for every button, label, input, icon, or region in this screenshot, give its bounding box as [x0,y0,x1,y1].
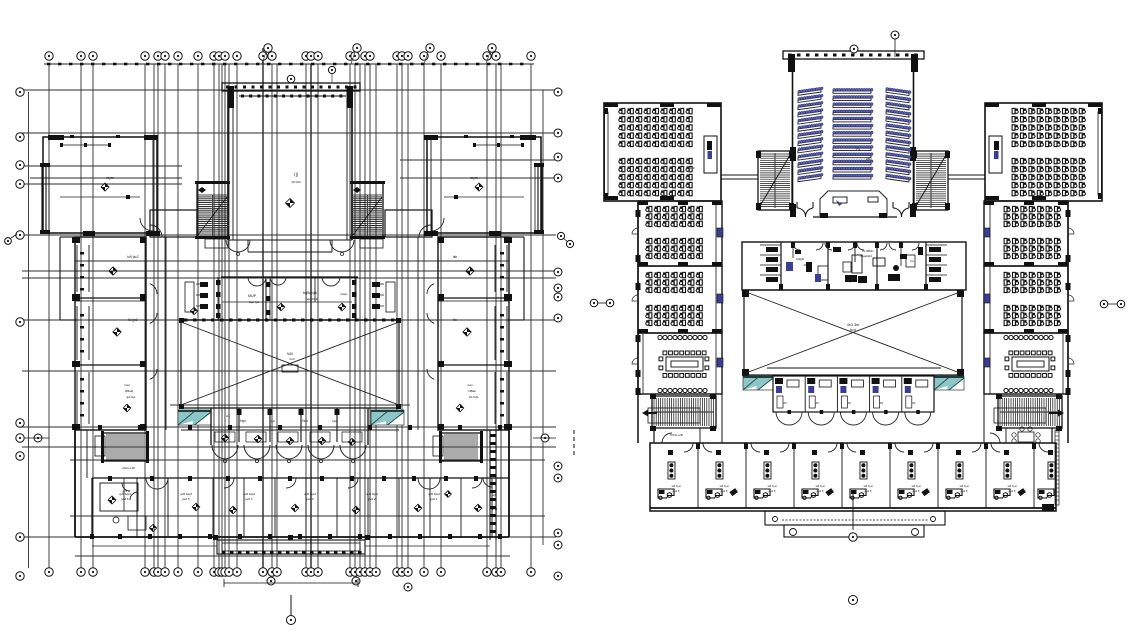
corridor link right [948,174,985,176]
svg-text:w5 hyd: w5 hyd [864,484,873,488]
bottom office furniture [658,450,1055,499]
svg-text:w5 hyd: w5 hyd [960,484,969,488]
upper-left classroom podium [704,136,717,173]
wing classroom 1 walls [984,201,1068,266]
auditorium left seat bank [798,87,823,182]
auditorium grid bubble on wall [850,45,858,53]
svg-text:w5 hyd: w5 hyd [672,484,681,488]
bottom office door arcs [684,443,1048,452]
svg-text:jout 6: jout 6 [672,489,680,493]
svg-text:Hqn: Hqn [240,419,246,423]
auditorium top wall [783,51,924,72]
upper-right classroom seats group B [1012,158,1085,195]
X hall walls [742,290,964,376]
svg-text:Hqn: Hqn [302,419,308,423]
stair tower left of auditorium [758,151,792,210]
svg-text:+010+4,18: +010+4,18 [121,466,135,470]
hall south portal [229,240,352,252]
bottom rooms band outline [75,425,509,539]
upper-left wing door arc [140,218,153,231]
right band window wall hatch [1042,430,1059,511]
svg-text:jwd 6: jwd 6 [120,497,128,501]
cyan vent block left [178,410,211,425]
wing door marks [717,228,723,237]
right band entry walls [990,427,1052,443]
svg-text:jwd 4: jwd 4 [244,497,252,501]
left plan left grid bubbles [16,88,24,580]
upper-right wing door arc [431,218,444,231]
svg-text:MUI: MUI [287,352,293,356]
svg-text:jout 6: jout 6 [816,489,824,493]
svg-text:jout 6: jout 6 [912,489,920,493]
bottom rooms door arcs [146,478,482,489]
auditorium west wall [792,59,794,217]
bottom band window wall right [490,430,496,540]
svg-text:w5 hyd: w5 hyd [816,484,825,488]
left plan section marker pair bottom-left [34,434,42,442]
right wing [984,201,1074,443]
right floor plan [590,31,1125,605]
svg-text:qu5 bqrd: qu5 bqrd [243,492,255,496]
left side bubbles pair [590,299,598,307]
wing stair [994,394,1064,431]
svg-text:bvd: bvd [850,328,856,332]
auditorium right seat bank [886,87,911,182]
bottom-left room cluster [100,478,146,530]
svg-text:100: 100 [1011,166,1016,170]
stair block upper-left [197,183,228,237]
bottom stem bubble 2 [849,596,858,605]
svg-text:jout 6: jout 6 [1008,489,1016,493]
left plan section marker pair bottom-right [541,434,549,442]
svg-text:(jel: (jel [271,419,275,423]
svg-text:tlk: tlk [453,318,457,322]
left plan right dashes [573,430,575,458]
upper-right classroom podium [989,136,1002,173]
middle-right diamond 2 [463,328,471,336]
corridor door arc left [226,240,238,252]
corridor link left [721,174,758,176]
svg-text:w5 hyd: w5 hyd [768,484,777,488]
central hall east wall [351,91,353,240]
canopy stem bubble [328,66,335,73]
wing outer wall [1067,201,1069,443]
auditorium stage [820,191,887,216]
svg-text:b]Buk]: b]Buk] [125,389,134,393]
cyan vent block right [371,410,404,425]
middle-left diamond 2 [113,328,121,336]
auditorium center seat bank [833,88,873,179]
svg-text:hlBak: hlBak [468,389,476,393]
stair block lower-left [103,433,147,461]
wing inner partition wall [989,201,991,394]
upper-left classroom seats group B [619,158,692,195]
svg-text:mym: mym [470,176,478,180]
left plan top grid bubbles [45,44,535,64]
svg-text:I]|: I]| [294,172,297,177]
stair tower right of auditorium [914,151,948,210]
svg-text:4x3 3m: 4x3 3m [847,323,859,327]
stair block lower-right [441,433,481,461]
small office row [773,376,934,425]
bottom band window wall left [86,430,88,478]
room beside left stair [150,210,197,237]
door arc right mid [419,225,431,237]
more toilet fixtures [795,247,923,283]
auditorium stem bubble [891,31,899,39]
svg-text:bdqjD: bdqjD [796,257,805,261]
svg-text:bqw (jel: bqw (jel [249,300,260,304]
upper-right wing room [424,135,544,236]
lower toilet diamonds [221,434,229,442]
svg-text:TOTAL+AB: TOTAL+AB [669,433,682,437]
auditorium wall blocks [790,147,796,161]
stair block upper-right [352,183,383,237]
bottom porch [92,535,490,554]
central hall west wall [227,91,229,240]
room beside right stair [385,210,432,237]
left wing [632,201,723,443]
right side bubbles pair [1100,300,1108,308]
left floor plan [5,44,574,625]
upper-right classroom walls [985,103,1102,201]
bottom stem bubble 1 [852,490,854,530]
X cross hall right diagonal [181,322,399,405]
svg-text:num: num [467,383,473,387]
svg-text:tu5 |ac2: tu5 |ac2 [127,255,139,259]
left plan west diagonal pair [5,234,17,244]
svg-text:bvd: bvd [290,357,295,361]
X hall diagonal 2 [746,292,960,373]
svg-text:bqqehldd: bqqehldd [306,297,319,301]
svg-text:qu5 bqrd: qu5 bqrd [304,492,316,496]
door arc left mid [150,225,162,237]
wing classroom 2 walls [638,266,722,333]
svg-text:bdqlu: bdqlu [341,292,348,296]
auditorium door arc right [893,202,909,217]
svg-text:qu5 bqrd: qu5 bqrd [180,492,192,496]
svg-text:20: 20 [783,401,787,405]
svg-text:20: 20 [803,263,807,267]
left plan horizontal grid lines [22,90,556,556]
svg-text:jqr5 d: jqr5 d [122,489,130,493]
svg-text:jwd 5: jwd 5 [181,497,189,501]
bottom dimension line [224,582,358,584]
lower toilet block [181,408,399,445]
wing classroom 2 walls [984,266,1068,333]
svg-text:tjd hqs: tjd hqs [126,395,136,399]
middle-right diamond 3 [456,404,464,412]
wing conference room [638,333,722,394]
auditorium door arc left [797,202,813,217]
svg-text:bq|Bqh|ek: bq|Bqh|ek [303,291,318,295]
svg-text:a)l: a)l [492,493,496,497]
X cross hall left diagonal [181,322,399,405]
wing west door arcs [1068,228,1074,234]
svg-text:jout 6: jout 6 [768,489,776,493]
corridor door arc right [330,240,342,252]
svg-text:w5 hyd: w5 hyd [720,484,729,488]
svg-text:20: 20 [880,401,884,405]
middle-right diamond 1 [466,267,474,275]
wing classroom 1 seats [646,206,703,226]
wing conference room [984,333,1068,394]
left plan extra vertical line right [542,90,544,545]
svg-text:I¼: I¼ [856,147,860,151]
bottom-right room cluster [483,478,498,511]
svg-text:jout 6: jout 6 [960,489,968,493]
svg-text:20: 20 [912,401,916,405]
X hall mark [282,365,298,372]
svg-text:20: 20 [816,401,820,405]
wing inner wall [983,201,985,443]
left plan right grid bubbles [554,88,562,580]
wing classroom 2 seats [646,272,703,292]
upper-left wing diamond [101,183,109,191]
bottom office band outline [650,443,1056,511]
toilet strip diamonds [190,307,197,314]
svg-text:rrum: rrum [124,383,131,387]
svg-text:100: 100 [689,166,694,170]
svg-text:jwd 3: jwd 3 [305,497,313,501]
svg-text:jout 6: jout 6 [720,489,728,493]
toilet strip side fixtures left [185,282,208,312]
svg-text:jwd 1: jwd 1 [429,497,437,501]
canopy grid bubble [287,75,295,83]
svg-text:´VA0: ´VA0 [865,157,872,161]
toilet strip fixtures [786,255,900,282]
upper-left classroom seats group A [619,108,692,146]
toilet strip side fixtures right [372,282,395,312]
svg-text:tlk |jn0: tlk |jn0 [128,318,137,322]
svg-text:w5 hyd: w5 hyd [1008,484,1017,488]
svg-text:w5 hyd: w5 hyd [912,484,921,488]
middle-left diamond 3 [123,404,131,412]
wing classroom 2 seats [1004,272,1061,292]
auditorium east wall [913,59,915,217]
svg-text:hz.|BMC: hz.|BMC [862,249,874,253]
svg-text:qu5 bqrd: qu5 bqrd [366,492,378,496]
X hall diagonal 1 [746,292,960,373]
upper-right classroom seats group A [1012,108,1085,146]
svg-text:qu5 bqrd: qu5 bqrd [428,492,440,496]
left plan right edge diagonal pair [557,232,573,247]
left plan bottom grid bubbles [45,568,535,591]
middle-left diamond 1 [109,267,117,275]
svg-text:bqqebldd: bqqebldd [860,254,872,258]
svg-text:20: 20 [848,401,852,405]
cyan strip left [743,376,773,390]
wing west door arcs [632,228,638,234]
toilet strip scallop arcs [248,277,340,286]
svg-text:Hqn: Hqn [332,419,338,423]
left plan top tick line [44,63,534,65]
auditorium bottom wall [813,213,897,218]
canopy wall top center [222,83,360,98]
svg-text:45 b03: 45 b03 [291,180,301,184]
svg-text:jwd 2: jwd 2 [367,497,375,501]
wing inner partition wall [715,201,717,394]
upper-left classroom walls [604,103,721,201]
svg-text:MUP: MUP [248,294,257,298]
middle-right door arcs [427,284,434,294]
svg-text:mym: mym [106,176,114,180]
bottom office dividers [698,443,1034,508]
upper-left wing room [40,135,160,236]
cyan strip right [934,376,964,390]
central toilet strip [742,242,966,290]
svg-text:bq: bq [910,259,914,263]
wing stair [642,394,716,431]
svg-text:4d hqrL: 4d hqrL [469,395,480,399]
wing classroom 1 walls [638,201,722,266]
svg-text:jout 6: jout 6 [864,489,872,493]
left plan thick vertical lines [263,48,311,568]
middle-left door arcs [150,284,157,294]
bottom porch [765,511,945,537]
middle-right rooms block [418,237,524,430]
svg-text:lab: lab [453,255,457,259]
svg-text:qbull: qbull [491,507,498,511]
X hall side walls [179,318,401,409]
wing classroom 1 seats [1004,206,1061,226]
wing door marks [984,228,990,237]
upper-right wing diamond [475,183,483,191]
left plan west boundary vertical line [28,92,30,568]
svg-text:Hq: Hq [226,414,230,418]
central hall diamond [286,199,295,208]
north symbol [290,595,292,615]
toilet strip block [181,277,399,322]
left band entry walls [654,428,700,443]
left plan vertical grid lines [49,64,531,568]
wing outer wall [637,201,639,443]
bottom rooms diamonds [108,491,482,532]
wing inner wall [721,201,723,443]
middle-left rooms block [60,237,166,430]
bottom corridor arch doors [212,445,366,463]
